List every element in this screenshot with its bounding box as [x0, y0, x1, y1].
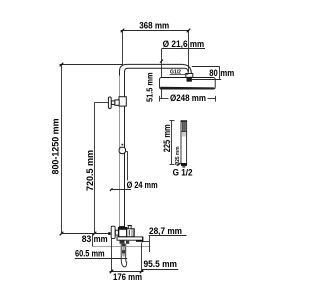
hose hook: [121, 244, 127, 267]
spout: [117, 237, 143, 244]
svg-text:Ø25 mm: Ø25 mm: [175, 146, 181, 166]
svg-text:51.5 mm: 51.5 mm: [145, 72, 155, 102]
svg-text:Ø248 mm: Ø248 mm: [170, 93, 206, 104]
dim 800-1250 mm: [60, 63, 123, 236]
arm connector nut: [186, 74, 193, 82]
dim 176 mm: [110, 239, 144, 274]
dim diameter 24 mm: [110, 152, 131, 192]
svg-text:95.5 mm: 95.5 mm: [144, 259, 178, 270]
riser pipe: [120, 64, 192, 228]
mixer centerline: [62, 233, 110, 235]
wall bracket knob: [108, 97, 126, 109]
svg-text:83: 83: [82, 234, 92, 245]
svg-text:176 mm: 176 mm: [113, 272, 142, 283]
svg-text:368 mm: 368 mm: [139, 21, 169, 32]
dim diameter 248 mm: [160, 96, 216, 102]
dim 83 mm: [92, 234, 94, 247]
svg-text:Ø 24 mm: Ø 24 mm: [127, 180, 158, 191]
dim 720.5 mm: [93, 103, 109, 236]
svg-text:Ø 21,6: Ø 21,6: [163, 39, 188, 50]
dim 51.5 mm: [160, 49, 163, 99]
hand shower wand: [181, 121, 187, 168]
diverter knob: [128, 225, 132, 229]
svg-text:G 1/2: G 1/2: [173, 167, 193, 177]
svg-text:800-1250 mm: 800-1250 mm: [51, 119, 62, 175]
svg-text:720.5 mm: 720.5 mm: [85, 150, 96, 191]
dim 368 mm: [121, 31, 189, 73]
svg-text:225 mm: 225 mm: [162, 124, 173, 152]
svg-text:mm: mm: [94, 234, 108, 245]
disc spray face: [160, 87, 216, 89]
mixer handle: [111, 226, 115, 238]
svg-text:mm: mm: [220, 68, 234, 79]
mixer body: [119, 226, 135, 237]
dim 225 mm: [170, 120, 175, 165]
dim diameter 21,6 mm: [162, 48, 205, 50]
svg-text:mm: mm: [190, 39, 204, 50]
slider knob on riser: [119, 147, 126, 153]
dim 80 mm: [192, 67, 222, 80]
overhead shower disc: [160, 78, 216, 90]
svg-text:80: 80: [209, 68, 218, 79]
